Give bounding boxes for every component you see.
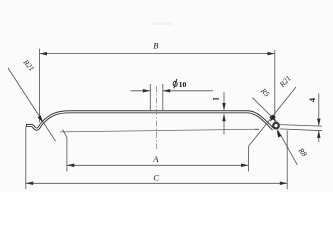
R5 arrow: [269, 115, 277, 123]
C right arrow: [280, 182, 287, 186]
hole left extension: [149, 84, 151, 111]
svg-text:1: 1: [212, 97, 221, 101]
leader R5: [252, 98, 277, 123]
svg-text:R21: R21: [277, 74, 293, 90]
sheet profile white core (double-line effect): [27, 112, 273, 129]
dimension B line: [40, 53, 275, 55]
curled rim loop right: [273, 123, 279, 129]
dimension C line: [26, 182, 287, 184]
leader R21 right: [248, 87, 296, 146]
leader R21 left: [8, 68, 56, 141]
dimension A line: [67, 164, 249, 166]
hole left arrow: [143, 89, 150, 93]
hole right extension: [162, 84, 164, 111]
svg-text:A: A: [152, 154, 159, 164]
C right extension: [286, 130, 288, 189]
thickness dim lower line: [223, 114, 225, 134]
hole dim line right tail: [163, 90, 213, 92]
svg-text:10: 10: [179, 80, 187, 89]
thickness top arrow: [222, 103, 226, 110]
height-4 bottom arrow: [317, 131, 321, 138]
B right arrow: [267, 52, 274, 56]
A left arrow: [67, 164, 74, 168]
hole dim line left tail: [131, 90, 151, 92]
thickness dim upper line: [223, 92, 225, 110]
far rim line across: [60, 129, 259, 132]
C left arrow: [26, 182, 33, 186]
R21 right arrow: [268, 115, 275, 123]
B left extension: [39, 49, 41, 123]
A right arrow: [241, 164, 248, 168]
svg-text:R8: R8: [296, 145, 309, 158]
svg-text:R21: R21: [21, 57, 36, 73]
rim top line right: [280, 125, 322, 127]
R21 left arrow: [37, 115, 44, 123]
A right extension: [247, 146, 249, 171]
leader R8: [278, 129, 298, 164]
height-4 lower line: [318, 131, 320, 142]
thickness bottom arrow: [222, 114, 226, 121]
C left extension: [25, 127, 27, 190]
scan smudge top center: [152, 22, 172, 25]
hole right arrow: [163, 89, 170, 93]
svg-text:C: C: [153, 173, 159, 183]
label phi10: [173, 81, 177, 86]
sheet profile outer stroke: [26, 112, 273, 129]
svg-text:4: 4: [307, 97, 317, 102]
svg-text:B: B: [153, 40, 158, 50]
rim bottom line right: [280, 129, 322, 131]
B left arrow: [40, 52, 47, 56]
height-4 top arrow: [317, 119, 321, 126]
A left extension: [63, 129, 67, 171]
R8 arrow: [275, 129, 281, 137]
svg-text:R5: R5: [258, 86, 271, 99]
B right extension: [274, 50, 276, 122]
centerline: [156, 86, 158, 149]
height-4 dim upper line: [318, 94, 320, 126]
